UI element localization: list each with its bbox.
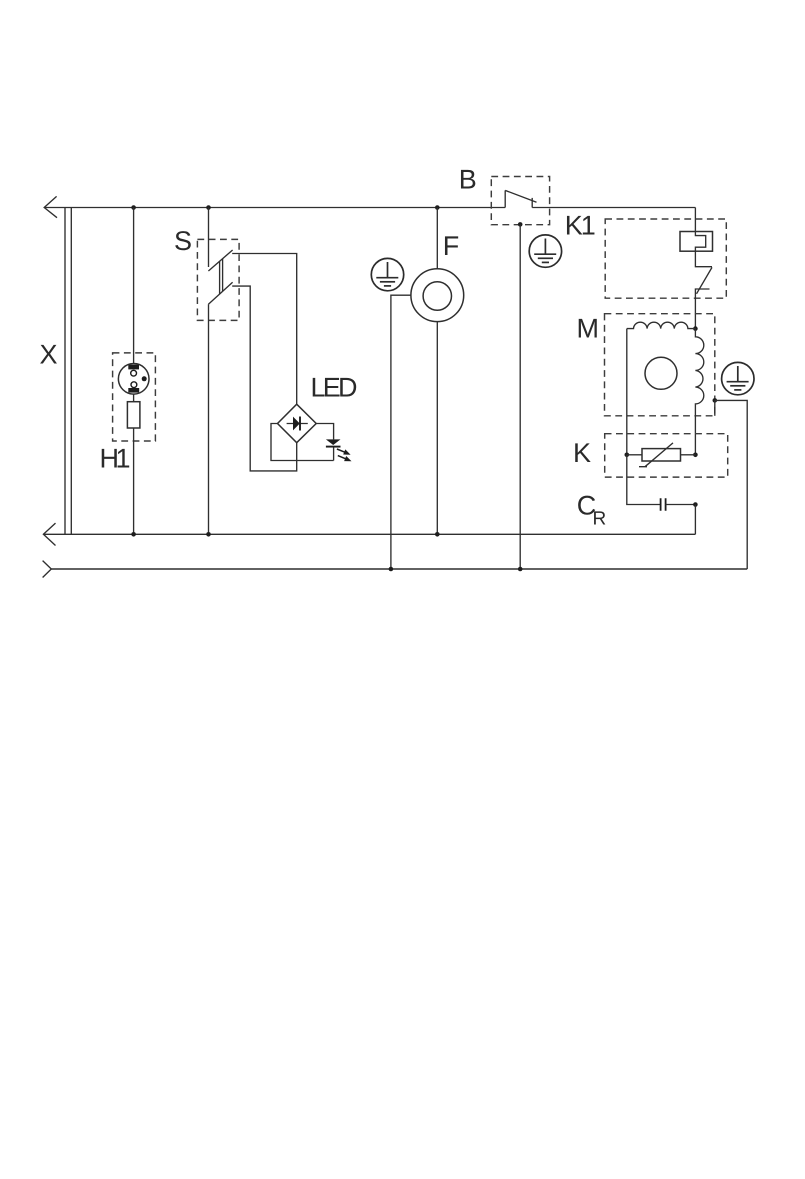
svg-text:K: K	[573, 438, 591, 468]
switch B blade	[505, 190, 536, 202]
fan motor F outer circle	[411, 269, 464, 322]
lamp H1 bottom electrode bar	[128, 388, 139, 393]
overload heater rectangle of K1	[680, 232, 713, 252]
connector X lead line 1	[64, 208, 66, 535]
motor M main winding (horizontal coil)	[627, 322, 696, 328]
node: L1 to H1 junction	[131, 205, 136, 210]
switch S pole 1 blade	[208, 250, 232, 271]
wire: S branch upper	[208, 208, 210, 268]
switch S linkage line 2	[222, 259, 224, 292]
switch S linkage line 1	[219, 261, 221, 294]
node: K left junction	[625, 453, 630, 458]
thermistor K body	[642, 449, 681, 461]
switch B right post	[531, 198, 533, 208]
svg-text:LED: LED	[311, 373, 358, 403]
diode symbol inside bridge	[287, 423, 308, 425]
wire: L1 bus right section from B to K1 corner	[532, 207, 695, 209]
node: F to L2 junction	[435, 532, 440, 537]
node: CR to main line junction	[693, 502, 698, 507]
lamp H1 lower small circle	[131, 382, 137, 388]
motor M rotor circle	[645, 357, 677, 389]
thermistor K dashed enclosure	[605, 434, 728, 477]
wire: left lead down to capacitor	[627, 455, 661, 505]
wire: H1 branch upper	[133, 208, 135, 364]
wire: F branch lower to L2	[436, 322, 438, 535]
wire: F branch upper	[436, 208, 438, 269]
svg-text:K1: K1	[565, 210, 596, 240]
wire: L1 corner down through K1 heater jog	[695, 208, 712, 267]
wire: L2 neutral bus with left open arrow	[43, 523, 695, 545]
thermistor K slope mark	[639, 443, 673, 467]
wire: motor frame stub to enclosure	[714, 400, 716, 415]
capacitor CR plates	[661, 498, 666, 510]
node: motor frame PE junction	[713, 398, 718, 403]
resistor of H1	[127, 402, 139, 428]
svg-text:M: M	[577, 313, 600, 343]
node: K1 to motor windings junction	[693, 326, 698, 331]
lamp H1 upper small circle	[131, 370, 137, 376]
wire: motor frame to PE bus	[715, 400, 747, 569]
wire: LED cathode to loop bottom	[333, 448, 335, 461]
wire: H1 lamp to resistor	[133, 394, 135, 402]
relay K1 lower contact stub	[695, 289, 709, 329]
node: L1 to S junction	[206, 205, 211, 210]
svg-text:X: X	[40, 340, 58, 370]
lamp H1 glow-lamp circle	[118, 364, 149, 395]
wire: capacitor right lead	[666, 504, 696, 506]
svg-text:S: S	[174, 226, 192, 256]
node: L1 to F junction	[435, 205, 440, 210]
switch S pole 2 blade	[208, 282, 232, 304]
switch B left post	[504, 190, 506, 207]
wire: L1 phase bus with left open arrow	[44, 196, 505, 217]
wire: S pole 1 output to bridge top	[232, 254, 297, 405]
motor M auxiliary winding (vertical coil)	[695, 329, 703, 455]
wire: H1 branch lower to L2	[133, 428, 135, 534]
svg-text:H1: H1	[100, 444, 131, 474]
motor M dashed enclosure	[605, 314, 715, 416]
wire: K right lead	[681, 454, 696, 456]
ground: PE symbol near B	[529, 235, 561, 267]
wire: PE earth bus with left chevron	[43, 561, 52, 578]
bridge rectifier diamond of LED module	[278, 404, 317, 443]
svg-text:R: R	[593, 508, 607, 529]
wire: bridge left vertex loop	[271, 424, 334, 461]
wire: bridge right vertex to LED	[316, 424, 333, 440]
node: B housing junction	[518, 222, 523, 227]
relay K1 contact blade	[697, 267, 713, 293]
LED emission arrow 1	[337, 449, 345, 452]
LED emission arrow 2	[338, 456, 346, 459]
node: H1 to L2 junction	[131, 532, 136, 537]
relay K1 dashed enclosure	[605, 219, 726, 298]
wire: K left lead	[627, 454, 642, 456]
node: K right junction	[693, 453, 698, 458]
wire: S branch lower to L2	[208, 304, 210, 534]
node: B earth to PE junction	[518, 567, 523, 572]
svg-text:B: B	[459, 165, 477, 195]
ground: PE symbol near F	[371, 258, 403, 290]
LED chip symbol	[326, 439, 341, 445]
lamp H1 top electrode bar	[128, 365, 139, 370]
lamp H1 dashed enclosure	[113, 353, 156, 441]
ground: PE symbol near M	[722, 362, 754, 394]
fan motor F inner circle	[423, 282, 451, 310]
switch B dashed enclosure	[491, 177, 549, 225]
wire: motor left winding lead down to K	[626, 329, 628, 455]
connector X lead line 2	[70, 208, 72, 535]
node: S to L2 junction	[206, 532, 211, 537]
svg-text:F: F	[443, 231, 460, 261]
wire: B housing to PE bus	[519, 224, 521, 569]
switch S dashed enclosure	[197, 239, 239, 320]
lamp H1 gas dot	[142, 376, 147, 381]
wire: F frame to PE bus	[391, 295, 411, 569]
wire: main line down to L2 end	[694, 505, 696, 535]
node: F earth to PE junction	[389, 567, 394, 572]
wire: S pole 2 output to bridge bottom	[232, 286, 297, 471]
